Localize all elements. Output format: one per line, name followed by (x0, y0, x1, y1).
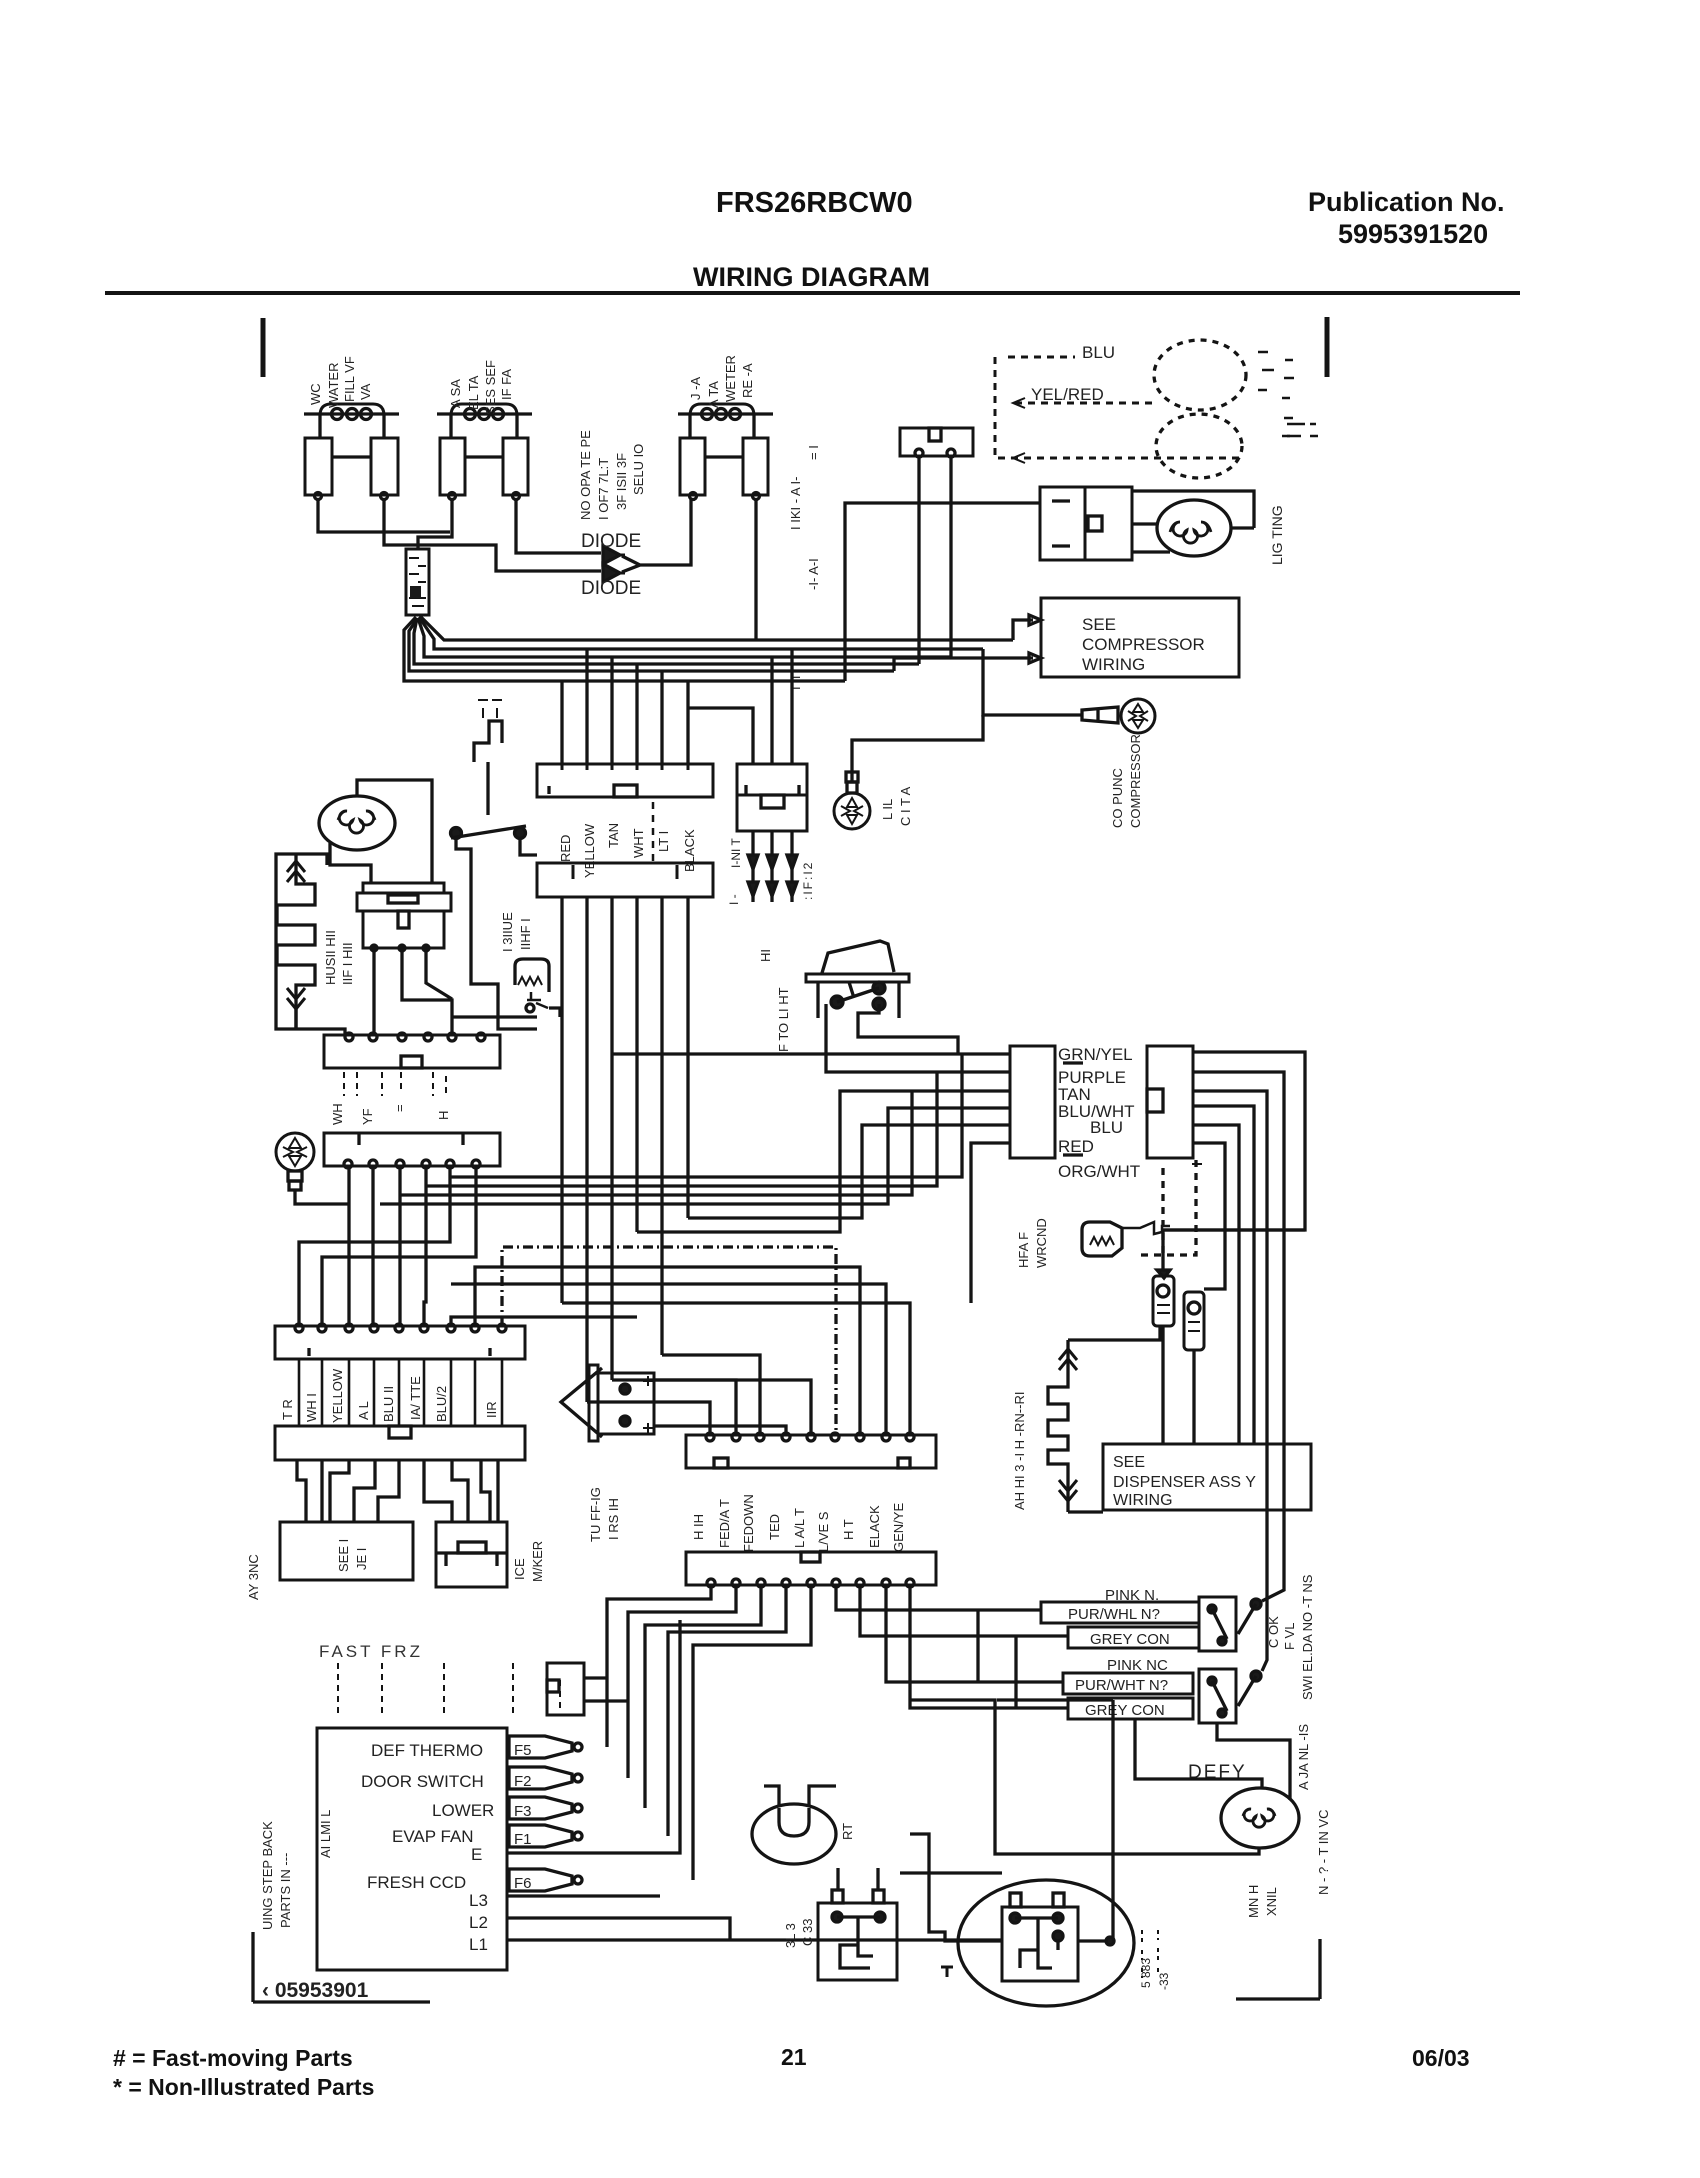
big center connector (686, 1433, 936, 1468)
defrost timer assembly (357, 883, 451, 951)
svg-text:YELLOW: YELLOW (582, 823, 597, 878)
label left of timer box (rotated) (260, 1810, 333, 1930)
label auger heater (rotated) (1012, 1392, 1027, 1510)
label defr dashed (rotated) (801, 861, 815, 900)
svg-text:L A/L T: L A/L T (792, 1508, 807, 1548)
defrost heater arrows (287, 861, 305, 1009)
svg-text:3F ISII 3F: 3F ISII 3F (614, 453, 629, 510)
svg-text:BLU: BLU (1090, 1118, 1123, 1137)
svg-text:LOWER: LOWER (432, 1801, 494, 1820)
svg-text:EVAP FAN: EVAP FAN (392, 1827, 474, 1846)
svg-text:HUSII HII: HUSII HII (323, 930, 338, 985)
svg-text:BLU: BLU (1082, 343, 1115, 362)
wire board right pin3 down to dispenser switch 2 (1193, 1091, 1267, 1671)
svg-text:= I: = I (806, 445, 821, 460)
heading rule (105, 291, 1520, 295)
label p to light (rotated) (758, 949, 791, 1052)
defrost heater thermostat right (1082, 1222, 1170, 1256)
svg-text:I RS IH: I RS IH (606, 1498, 621, 1540)
svg-text:COMPRESSOR: COMPRESSOR (1082, 635, 1205, 654)
wire labels GRN/YEL..ORG/WHT (1058, 1045, 1140, 1181)
wire compressor left step feed (910, 1834, 1002, 1941)
wire board pin6 feed (971, 1143, 1010, 1303)
wire light switch top to pin (654, 1380, 811, 1435)
wires lower connector to terminal verticals (607, 1585, 811, 1880)
wire relay stubs up (838, 1868, 878, 1890)
svg-text:A SA: A SA (448, 379, 463, 408)
svg-text:XNIL: XNIL (1264, 1887, 1279, 1916)
bottom-left corner bracket (253, 1932, 430, 2002)
start relay box (818, 1890, 897, 1980)
label see note (rotated) (1139, 1958, 1171, 1990)
svg-text:YELLOW: YELLOW (330, 1368, 345, 1423)
svg-text:I-NI T: I-NI T (729, 838, 743, 868)
svg-text:T R: T R (280, 1399, 295, 1420)
label switch module (rotated) (1300, 1574, 1331, 1895)
svg-text:ICE: ICE (512, 1558, 527, 1580)
splice connector (hatched) (406, 549, 429, 615)
long link h1303 (562, 1303, 910, 1435)
dispenser switch 2 bar lower (1068, 1698, 1193, 1719)
ice maker connector box (436, 1522, 507, 1587)
wire feed to lighting box (845, 503, 1040, 681)
left connector bar A (324, 1033, 500, 1068)
wire door switch right leg (520, 838, 537, 855)
in-line fuse block (737, 764, 807, 831)
labels inside timer box (361, 1741, 494, 1954)
dispenser fuse 1 (1153, 1270, 1174, 1326)
dashed drops under bar A (344, 1072, 446, 1096)
wire bundle barB to control board riser 3 (400, 1091, 912, 1195)
svg-text:LIG TING: LIG TING (1269, 505, 1285, 565)
interior lamp bulb (276, 1133, 314, 1190)
wire compressor left feed (900, 1871, 1002, 1874)
svg-text:UING STEP BACK: UING STEP BACK (260, 1821, 275, 1930)
svg-text:RED: RED (558, 835, 573, 862)
water valve coil 3 (inlet) (678, 404, 773, 500)
svg-text:A L: A L (356, 1401, 371, 1420)
svg-text:M/KER: M/KER (530, 1541, 545, 1582)
labels under bar C (rotated) (280, 1368, 499, 1423)
svg-text:IA/ TTE: IA/ TTE (408, 1376, 423, 1420)
svg-text:DEF THERMO: DEF THERMO (371, 1741, 483, 1760)
svg-text:TU FF-IG: TU FF-IG (588, 1487, 603, 1542)
svg-text:WH I: WH I (304, 1393, 319, 1422)
svg-text:SEE: SEE (1082, 615, 1116, 634)
dispenser fuse 2 (1184, 1292, 1204, 1350)
svg-text:5 883: 5 883 (1139, 1958, 1153, 1988)
svg-text:TAN: TAN (606, 823, 621, 848)
wire fan motor frame (330, 780, 432, 883)
dispenser switch 1 bar upper (1041, 1602, 1199, 1623)
wires lighting box to lamp frame (1132, 491, 1254, 552)
label right of switch 1 (rotated) (1266, 1616, 1297, 1650)
see compressor wiring box (1041, 598, 1239, 677)
condenser fan motor bottom (752, 1804, 836, 1864)
svg-text:FEDOWN: FEDOWN (741, 1494, 756, 1552)
wire fuse2 bottom to dispenser box (1192, 1350, 1195, 1444)
svg-text:# = Fast-moving Parts: # = Fast-moving Parts (113, 2045, 353, 2071)
label right of coil 3 (rotated) (788, 445, 821, 690)
wire board pin3 feed (637, 1091, 1010, 1232)
svg-text:SES SEF: SES SEF (483, 360, 498, 415)
dashed wire below boards (1136, 1160, 1196, 1255)
aux connector box small (547, 1663, 584, 1715)
label LIGHTING (rotated) (1269, 505, 1285, 565)
green ground lug (834, 772, 870, 829)
defrost limit thermostat (515, 959, 549, 1012)
wire board right pin6 to fuse2 (1193, 1143, 1225, 1289)
svg-text:I -: I - (727, 894, 741, 905)
wire motor bottom run (910, 1700, 1259, 1854)
wires timer box right rows (507, 1620, 680, 1853)
staircase right feeds to barC (451, 1317, 637, 1326)
defrost heater element zigzag (277, 854, 315, 1029)
wire heater bottom to barA (296, 1008, 345, 1035)
wire valve1 left to connector (318, 499, 450, 532)
wire lamp to staircase (295, 1190, 349, 1204)
dispenser switch 1 lever (1238, 1599, 1261, 1634)
svg-text:AY 3NC: AY 3NC (246, 1554, 261, 1600)
svg-text:21: 21 (781, 2044, 807, 2070)
label note block (rotated) (578, 430, 646, 520)
wires barD to ice maker weave (424, 1461, 452, 1522)
svg-text:‹ 05953901: ‹ 05953901 (262, 1979, 369, 2002)
water valve coil 2 (ref valve) (437, 404, 532, 500)
labels under upper bar (rotated) (558, 823, 697, 878)
SEE ice-box left (280, 1522, 413, 1580)
svg-text:GRN/YEL: GRN/YEL (1058, 1045, 1133, 1064)
wire center verticals below lower bar (562, 897, 688, 1402)
label auger motor (rotated) (1246, 1885, 1279, 1918)
long link h1284 (451, 1284, 886, 1435)
terminal F5 (509, 1736, 582, 1759)
svg-text:PUR/WHL N?: PUR/WHL N? (1068, 1606, 1160, 1623)
wires barD to SEE box weave (297, 1461, 306, 1522)
svg-text:AI LMI L: AI LMI L (318, 1810, 333, 1858)
wires timer pins down (374, 951, 452, 1035)
dispenser switch 2 lever (1238, 1671, 1261, 1706)
svg-text:WC: WC (308, 383, 323, 405)
wire riser switch bank 1 (976, 1610, 979, 1682)
control board box right (1147, 1046, 1193, 1158)
svg-text:C I T A: C I T A (898, 786, 913, 826)
center connector bar lower (537, 802, 713, 897)
svg-text:WIRING DIAGRAM: WIRING DIAGRAM (693, 262, 930, 292)
wires aux box to verticals (584, 1678, 628, 1701)
svg-text:F VL: F VL (1282, 1623, 1297, 1650)
diode 1 (603, 546, 620, 564)
wire board right pin2 down to dispenser switch 1 (1193, 1072, 1284, 1601)
left connector bar D (275, 1426, 525, 1460)
wire board right pin5 down (1193, 1125, 1239, 1444)
svg-text:CO PUNC: CO PUNC (1110, 768, 1125, 828)
svg-text:L/VE S: L/VE S (816, 1511, 831, 1552)
svg-text:FRS26RBCW0: FRS26RBCW0 (716, 187, 913, 219)
svg-text:F6: F6 (514, 1875, 532, 1892)
label compressor ground (rotated) (1110, 734, 1143, 828)
wire fuse1 bottom to dispenser box (1161, 1326, 1164, 1444)
wire switch2 to defy lamp (1135, 1719, 1262, 1789)
svg-text:C 33: C 33 (800, 1919, 815, 1946)
svg-text:IIF I HII: IIF I HII (340, 942, 355, 985)
wire limit thermostat to center (452, 1008, 560, 1017)
dotted marks right of ellipses (1258, 352, 1294, 436)
svg-text:I II: I II (788, 676, 803, 690)
wire thermostat right terminal drop (949, 457, 952, 657)
wire valve1 right to diode2 input (384, 499, 601, 571)
center connector bar upper (537, 764, 713, 797)
svg-text:GEN/YE: GEN/YE (891, 1503, 906, 1552)
control board pins left (1063, 1063, 1083, 1155)
svg-text:EL TA: EL TA (466, 375, 481, 410)
diode 2 (603, 564, 620, 582)
svg-text:SELU IO: SELU IO (631, 444, 646, 495)
svg-text:PUR/WHT N?: PUR/WHT N? (1075, 1677, 1168, 1694)
thermostat connector box (900, 428, 973, 457)
label in-line (rotated) (727, 838, 743, 905)
svg-text:I OF7 7L:T: I OF7 7L:T (596, 458, 611, 520)
svg-text:DIODE: DIODE (581, 578, 641, 599)
svg-text:BLACK: BLACK (682, 829, 697, 872)
label inside SEE box (rotated) (336, 1539, 369, 1572)
label water valve 3 (rotated) (688, 355, 755, 408)
svg-text:I 3IIUE: I 3IIUE (500, 912, 515, 952)
svg-text:GREY CON: GREY CON (1085, 1702, 1165, 1719)
wires lower connector right pins to switches (836, 1585, 1041, 1610)
terminal F6 (509, 1869, 582, 1892)
svg-text:WIRING: WIRING (1082, 655, 1145, 674)
svg-text:F2: F2 (514, 1773, 532, 1790)
svg-text:-I- A-I: -I- A-I (806, 558, 821, 590)
svg-text:WATER: WATER (326, 363, 341, 409)
svg-text:LT I: LT I (656, 831, 671, 852)
wire valve3 right long drop (754, 499, 757, 640)
label water fill valve (rotated) (308, 356, 373, 408)
label see compressor wiring (1082, 615, 1205, 674)
svg-text:DOOR SWITCH: DOOR SWITCH (361, 1772, 484, 1791)
terminal F1 (509, 1825, 582, 1848)
svg-text:YEL/RED: YEL/RED (1031, 385, 1104, 404)
auger drive motor (1221, 1788, 1299, 1848)
svg-text:AH HI 3 -I H -RN--RI: AH HI 3 -I H -RN--RI (1012, 1392, 1027, 1510)
label RT (rotated) (840, 1823, 855, 1840)
label defrost heater (rotated) (323, 930, 355, 985)
svg-text:WRCND: WRCND (1034, 1218, 1049, 1268)
svg-text:H IH: H IH (691, 1514, 706, 1540)
staircase barB to barC (299, 1166, 450, 1326)
defrost heater outer frame (276, 854, 297, 1029)
door switch steps (474, 721, 502, 762)
svg-text:-33: -33 (1157, 1972, 1171, 1990)
evaporator dashed ellipse lower (1156, 414, 1242, 478)
wire board pin5 feed (688, 1125, 1010, 1218)
svg-text:HFA F: HFA F (1016, 1232, 1031, 1268)
compressor ellipse (958, 1880, 1134, 2006)
compressor terminal box (1002, 1893, 1078, 1981)
control board box left (1010, 1046, 1055, 1158)
label ref see valve (rotated) (448, 360, 514, 415)
svg-text:FAST FRZ: FAST FRZ (319, 1642, 423, 1661)
svg-text:F TO LI HT: F TO LI HT (776, 987, 791, 1052)
fuse block arrow leads (748, 831, 797, 902)
svg-text:L3: L3 (469, 1891, 488, 1910)
svg-text:DIODE: DIODE (581, 531, 641, 552)
svg-text:RE -A: RE -A (740, 363, 755, 398)
wire valve2 right to diode1 input (516, 499, 601, 553)
svg-text:RT: RT (840, 1823, 855, 1840)
svg-text:06/03: 06/03 (1412, 2045, 1470, 2071)
svg-text:L IL: L IL (880, 799, 895, 820)
left margin tick (261, 318, 266, 377)
svg-text:TED: TED (767, 1514, 782, 1540)
svg-text:FRESH CCD: FRESH CCD (367, 1873, 466, 1892)
svg-text:SEE I: SEE I (336, 1539, 351, 1572)
water valve coil 1 (fill valve) (304, 404, 399, 500)
svg-text:F3: F3 (514, 1803, 532, 1820)
right margin tick (1325, 317, 1330, 377)
wire bar1 feeds (562, 649, 688, 764)
svg-text:WETER: WETER (723, 355, 738, 402)
wire bundle lamp row long (380, 1108, 1010, 1204)
svg-text:WH: WH (330, 1103, 345, 1125)
see dispenser assy wiring box (1103, 1444, 1311, 1510)
wire fan-out from splice (404, 617, 845, 681)
left connector bar B (324, 1133, 500, 1168)
dashed marks right of compressor (1142, 1930, 1158, 1978)
svg-text:* = Non-Illustrated Parts: * = Non-Illustrated Parts (113, 2074, 374, 2100)
svg-text::IF:I2: :IF:I2 (801, 861, 815, 900)
wires into fuse block top (688, 649, 792, 764)
svg-text:J -A: J -A (688, 377, 703, 400)
wire heater top link (1068, 1326, 1160, 1340)
svg-text:E: E (471, 1845, 482, 1864)
wire thermostat left terminal drop (917, 457, 920, 664)
dashed drops fast frz (338, 1663, 560, 1713)
svg-text:N - ? - T IN VC: N - ? - T IN VC (1316, 1810, 1331, 1895)
svg-text:VA: VA (358, 383, 373, 400)
dispenser switch 1 bar lower (1068, 1627, 1199, 1648)
svg-text:Publication No.: Publication No. (1308, 187, 1505, 217)
svg-text:IF FA: IF FA (499, 369, 514, 400)
svg-text:F1: F1 (514, 1831, 532, 1848)
svg-text:YF: YF (360, 1108, 375, 1125)
refrigerator light switch (561, 1365, 654, 1441)
svg-text:H T: H T (841, 1519, 856, 1540)
wire bundle barB to control board riser 1 (450, 1054, 962, 1177)
label T mark (941, 1967, 953, 1977)
svg-text:PINK NC: PINK NC (1107, 1657, 1168, 1674)
labels under big connector (rotated) (691, 1494, 906, 1552)
wires bar2 to big connector pins (587, 1355, 760, 1435)
dispenser switch 1 box (1199, 1597, 1236, 1651)
wire compressor right feed (1078, 1700, 1113, 1941)
labels under bar A (rotated) (330, 1103, 451, 1125)
left connector bar C (275, 1324, 525, 1359)
wire into compressor box lower (894, 653, 1041, 671)
svg-text:F5: F5 (514, 1742, 532, 1759)
door switch contacts and blade (451, 762, 527, 839)
svg-text:NO OPA TE PE: NO OPA TE PE (578, 430, 593, 520)
svg-text:MN H: MN H (1246, 1885, 1261, 1918)
wires barC pins down to barD (299, 1359, 502, 1426)
svg-text:A TA: A TA (706, 381, 721, 408)
svg-text:ELACK: ELACK (867, 1505, 882, 1548)
label right of switch 2 (rotated) (1296, 1724, 1311, 1790)
wire thermostat to vertical 1305 (1162, 1228, 1305, 1231)
wire heater top to fan (297, 854, 327, 865)
svg-text:C OK: C OK (1266, 1616, 1281, 1648)
svg-text:A JA NL -IS: A JA NL -IS (1296, 1724, 1311, 1790)
rocker switch freezer control (806, 941, 909, 1018)
svg-text:DISPENSER ASS Y: DISPENSER ASS Y (1113, 1474, 1256, 1491)
wire door switch left leg (456, 838, 537, 1029)
svg-text:BLU II: BLU II (381, 1386, 396, 1422)
label see dispenser (1113, 1454, 1256, 1509)
wire bundle to compressor lug (983, 649, 1082, 715)
wire fuse1 top (1161, 1230, 1164, 1270)
svg-text:ORG/WHT: ORG/WHT (1058, 1162, 1140, 1181)
svg-text:3L 3: 3L 3 (783, 1923, 798, 1948)
svg-text:FED/A T: FED/A T (717, 1499, 732, 1548)
wire bundle barB to control board riser 2 (426, 1072, 937, 1186)
wire riser switch bank 2 (1014, 1636, 1017, 1708)
svg-text:I IKI - A I-: I IKI - A I- (788, 477, 803, 530)
svg-text:PARTS IN ---: PARTS IN --- (278, 1853, 293, 1928)
label left margin (rotated) (246, 1554, 261, 1600)
label light switch (rotated) (588, 1487, 621, 1542)
svg-text:FILL VF: FILL VF (342, 356, 357, 402)
bottom-right corner bracket (1236, 1939, 1320, 1999)
lighting relay box (1040, 487, 1132, 560)
wire into compressor box upper (1013, 615, 1041, 640)
label grn lug (rotated) (880, 786, 913, 826)
svg-text:L1: L1 (469, 1935, 488, 1954)
svg-text:IIHF I: IIHF I (518, 918, 533, 950)
terminal F2 (509, 1767, 582, 1790)
wire ground chain (852, 715, 983, 782)
wires rocker to control board (858, 1004, 958, 1054)
defrost timer box (317, 1728, 507, 1970)
label ice maker (rotated) (512, 1541, 545, 1582)
wire board right pin4 to dispenser box (1193, 1106, 1254, 1444)
svg-text:L2: L2 (469, 1913, 488, 1932)
svg-text:GREY CON: GREY CON (1090, 1631, 1170, 1648)
svg-text:JE I: JE I (354, 1548, 369, 1570)
dashed arrowheads (1013, 398, 1025, 463)
water tube heater right (1048, 1340, 1077, 1512)
dispenser switch 2 box (1199, 1669, 1236, 1723)
svg-text:HI: HI (758, 949, 773, 962)
compressor ground lug (1082, 699, 1155, 733)
wire board right pin1 to heater thermostat line (1162, 1052, 1305, 1230)
evaporator dashed ellipse upper (1154, 340, 1246, 410)
svg-text:SWI EL.DA NO -T NS: SWI EL.DA NO -T NS (1300, 1574, 1315, 1700)
svg-text:WIRING: WIRING (1113, 1492, 1173, 1509)
svg-text:SEE: SEE (1113, 1454, 1145, 1471)
lighting lamp (1157, 500, 1231, 556)
wire valve2 left to connector (418, 499, 452, 549)
condenser fan motor (319, 796, 395, 850)
svg-text:COMPRESSOR: COMPRESSOR (1128, 734, 1143, 828)
svg-text:5995391520: 5995391520 (1338, 219, 1488, 249)
wire diode output to valve3 left (622, 499, 691, 572)
label MK HM dashes (1287, 424, 1318, 436)
dashed harness path (995, 357, 1240, 458)
wires condenser fan top (764, 1786, 836, 1806)
label relay wires (rotated) (783, 1919, 815, 1948)
svg-text:IIR: IIR (484, 1401, 499, 1418)
